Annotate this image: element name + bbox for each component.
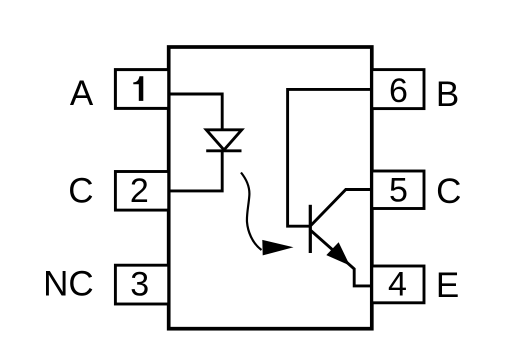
svg-text:6: 6 bbox=[389, 72, 408, 110]
svg-text:C: C bbox=[68, 172, 93, 211]
svg-text:B: B bbox=[436, 75, 459, 114]
svg-text:A: A bbox=[70, 74, 94, 113]
svg-text:C: C bbox=[436, 172, 461, 211]
svg-text:NC: NC bbox=[43, 265, 94, 304]
svg-text:2: 2 bbox=[130, 172, 149, 210]
svg-text:3: 3 bbox=[130, 266, 149, 304]
svg-text:5: 5 bbox=[389, 172, 408, 210]
svg-text:E: E bbox=[436, 266, 459, 305]
svg-text:4: 4 bbox=[388, 265, 407, 303]
